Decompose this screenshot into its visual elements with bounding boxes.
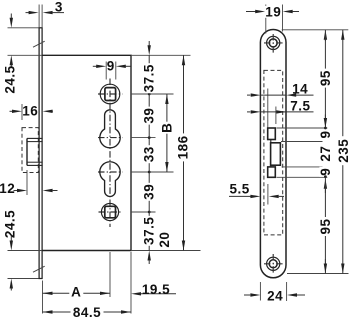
chain95 top arrow — [324, 30, 327, 40]
dimension 14 extension line b — [275, 107, 277, 125]
bottom screw hole inner circle — [269, 260, 277, 268]
dimension 12 extension line — [26, 170, 28, 195]
svg-text:14: 14 — [292, 81, 308, 96]
hole centerline vertical — [109, 79, 111, 228]
deadbolt top inner edge — [27, 141, 43, 143]
label 95 top — [319, 69, 331, 88]
deadbolt bottom edge — [27, 164, 43, 166]
top screw hole inner circle — [269, 39, 277, 47]
svg-text:27: 27 — [318, 146, 333, 162]
dimension 5.5 extension line — [267, 184, 269, 205]
deadbolt top edge — [27, 137, 43, 139]
case top extension line right — [131, 54, 191, 56]
svg-text:24.5: 24.5 — [3, 65, 18, 93]
case bottom extension line right — [131, 250, 201, 252]
upper cylinder centerline horizontal — [98, 137, 123, 139]
faceplate break mark bottom — [33, 266, 45, 272]
dimension B bottom arrow — [165, 162, 168, 172]
label 9 lower — [319, 167, 331, 177]
dimension 14 left arrow — [247, 94, 250, 96]
dimension 186 top arrow — [182, 55, 185, 65]
dimension 235 label — [337, 136, 350, 165]
latch lower tab extension — [277, 176, 328, 178]
dimension 7.5 line through plate — [260, 111, 286, 113]
svg-text:84.5: 84.5 — [73, 305, 101, 319]
dimension 9 extension left — [105, 62, 107, 80]
svg-text:20: 20 — [157, 232, 172, 248]
bottom screw hole outer circle — [267, 257, 280, 270]
plate bottom extension line — [287, 273, 349, 275]
label 27 — [319, 145, 331, 163]
svg-text:95: 95 — [318, 70, 333, 86]
dimension 7.5 right arrow — [276, 110, 286, 113]
dimension 24.5 bottom upper arrow — [10, 236, 12, 241]
dimension 24.5 top lower arrow — [10, 55, 13, 65]
svg-text:9: 9 — [318, 168, 333, 176]
dimension 12 left arrow — [14, 190, 18, 192]
top screw crosshair — [264, 42, 285, 44]
svg-text:9: 9 — [107, 59, 115, 74]
dimension 186 label — [177, 133, 189, 161]
dimension 3 arrow right — [43, 11, 53, 14]
dimension 19 label — [265, 6, 282, 18]
svg-text:186: 186 — [176, 135, 191, 159]
lock case dashed outline behind plate — [264, 70, 283, 235]
dimension A line — [43, 292, 111, 294]
dimension 16 left arrow — [10, 110, 13, 112]
chain dot follower — [148, 93, 151, 96]
faceplate top extension line — [8, 27, 39, 29]
label 39 upper — [143, 107, 155, 125]
svg-text:5.5: 5.5 — [230, 182, 250, 197]
dimension 235 bottom arrow — [341, 264, 344, 274]
label 37.5 bottom — [143, 216, 155, 246]
dimension 9 extension right — [115, 62, 117, 80]
chain95 bottom arrow up — [324, 179, 327, 189]
case bottom extension line left — [8, 250, 43, 252]
dimension 14 line — [296, 94, 314, 96]
label 9 upper — [319, 130, 331, 140]
lock case outline — [42, 55, 131, 250]
dimension 14 extension line a — [267, 89, 269, 128]
bottom follower centerline horizontal — [99, 211, 122, 213]
chain dimension top arrow — [148, 41, 150, 46]
dimension 24 extension right — [286, 282, 288, 301]
svg-text:95: 95 — [318, 218, 333, 234]
label 33 — [143, 145, 155, 163]
dimension 24.5 top upper arrow — [10, 18, 13, 28]
faceplate side view — [39, 28, 42, 279]
dimension A arrows — [43, 292, 53, 295]
chain dot lower cylinder — [148, 171, 151, 174]
lower cylinder extension line — [131, 171, 174, 173]
lower cylinder centerline horizontal — [98, 171, 123, 173]
dimension B top arrow — [165, 94, 168, 104]
top follower hole circle — [100, 84, 120, 104]
plate top extension line — [282, 29, 349, 31]
dimension 19 left arrow — [246, 11, 256, 13]
svg-text:B: B — [159, 123, 174, 133]
dimension 235 line — [342, 30, 344, 274]
chain dot upper cylinder — [148, 136, 151, 139]
dimension 7.5 left arrow — [247, 111, 250, 113]
chain95 line bottom — [324, 177, 326, 273]
dimension 19 right arrow — [283, 10, 293, 13]
deadbolt retracted front face — [26, 138, 28, 165]
follower extension line — [131, 93, 174, 95]
faceplate bottom extension line — [8, 278, 39, 280]
dimension 24 right arrow — [287, 293, 297, 296]
svg-text:19.5: 19.5 — [142, 282, 170, 297]
svg-text:19: 19 — [265, 4, 281, 19]
faceplate extension line bottom — [42, 281, 44, 314]
case right extension line bottom — [130, 252, 132, 314]
dimension 14 line through plate — [260, 94, 286, 96]
svg-text:16: 16 — [22, 103, 38, 118]
dimension 3 line left — [26, 12, 30, 14]
dimension 7.5 line — [286, 111, 313, 113]
dimension 3 extension line right — [41, 5, 43, 28]
dimension 12 right arrow — [43, 189, 53, 192]
follower centerline horizontal — [98, 93, 123, 95]
dimension 186 line — [183, 55, 185, 250]
dimension 186 bottom arrow — [182, 241, 185, 251]
label 37.5 top — [143, 63, 155, 93]
chain dimension bottom arrow — [148, 251, 151, 261]
dimension 3 arrow left — [29, 11, 39, 14]
svg-text:37.5: 37.5 — [142, 64, 157, 92]
svg-text:9: 9 — [318, 130, 333, 138]
bottom follower extension line — [131, 211, 156, 213]
latch bottom tab — [268, 167, 276, 177]
svg-text:24.5: 24.5 — [3, 210, 18, 238]
label 39 lower — [143, 183, 155, 201]
top screw hole outer circle — [267, 36, 280, 49]
svg-text:12: 12 — [0, 181, 15, 196]
dimension 5.5 leader — [229, 195, 251, 197]
dimension 235 top arrow — [341, 30, 344, 40]
dimension 9 left arrow — [93, 65, 97, 67]
case top extension line left — [8, 54, 43, 56]
dimension 84.5 label — [71, 306, 104, 318]
dimension 24.5 bottom lower arrow — [10, 279, 13, 289]
dimension 14 right arrow — [286, 93, 296, 96]
dimension 9 right arrow — [116, 65, 126, 68]
dimension 19 extension left — [265, 5, 267, 34]
faceplate front view outline — [260, 30, 286, 278]
chain95 arrow at 95 — [324, 115, 326, 119]
latch tab bottom extension — [281, 141, 323, 143]
svg-text:A: A — [71, 284, 81, 299]
dimension 84.5 arrows — [43, 310, 53, 313]
svg-text:7.5: 7.5 — [290, 98, 310, 113]
faceplate break mark top — [33, 41, 45, 47]
svg-text:39: 39 — [142, 108, 157, 124]
chain95 arrow bottom — [324, 259, 326, 264]
dimension 16 extension line — [21, 104, 23, 120]
top follower square spindle hole — [105, 88, 116, 101]
dimension 24 left arrow — [244, 294, 250, 296]
deadbolt extended dashed outline — [22, 128, 38, 173]
upper cylinder extension line — [131, 137, 156, 139]
dimension 3 extension line left — [38, 5, 40, 28]
label 95 bottom — [319, 217, 331, 236]
dimension 5.5 right arrow — [269, 195, 279, 198]
dimension B label — [161, 122, 173, 134]
latch connector bottom — [270, 165, 272, 167]
dimension B line — [166, 94, 168, 172]
latch connector top — [270, 140, 272, 143]
centerline extension bottom — [109, 252, 111, 297]
dimension 24 label — [266, 290, 285, 302]
latch body bottom extension — [282, 166, 323, 168]
chain dot bottom follower — [148, 211, 151, 214]
latch tab top extension — [277, 127, 328, 129]
upper cylinder keyhole — [100, 110, 120, 148]
dimension 16 right arrow — [43, 110, 53, 113]
svg-text:39: 39 — [142, 184, 157, 200]
lower cylinder keyhole — [100, 162, 120, 197]
latch top tab — [268, 128, 276, 140]
svg-text:3: 3 — [55, 0, 63, 15]
chain95 line top — [324, 30, 326, 128]
bottom follower square spindle hole — [105, 206, 116, 218]
dimension 24 extension left — [259, 282, 261, 301]
dimension 84.5 line — [43, 311, 132, 313]
deadbolt bottom inner edge — [27, 161, 43, 163]
latch body — [271, 143, 281, 165]
svg-text:37.5: 37.5 — [142, 217, 157, 245]
chain line — [148, 55, 150, 250]
dimension 19.5 arrow — [131, 292, 141, 295]
svg-text:24: 24 — [267, 289, 283, 304]
dimension 3 line right — [52, 12, 64, 14]
chain dot 9 lower — [324, 175, 327, 178]
svg-text:33: 33 — [142, 146, 157, 162]
dimension A label — [69, 285, 83, 298]
bottom follower hole circle — [101, 203, 118, 220]
svg-text:235: 235 — [336, 139, 350, 163]
chain dot 9 upper — [324, 127, 327, 130]
bottom screw crosshair — [264, 263, 285, 265]
dimension 19 extension right — [282, 5, 284, 32]
